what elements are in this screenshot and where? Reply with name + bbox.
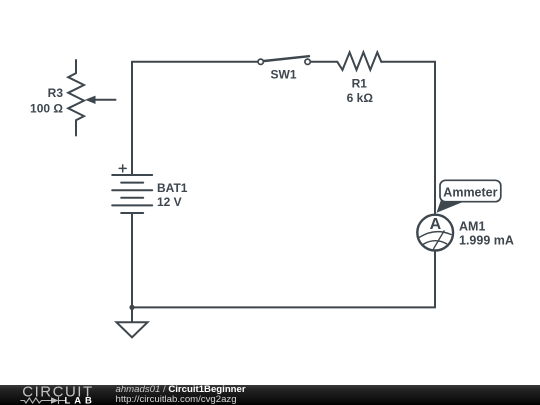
wire top rail left (corner to SW1 left terminal) xyxy=(132,61,257,63)
svg-text:100 Ω: 100 Ω xyxy=(30,101,63,115)
svg-text:BAT1: BAT1 xyxy=(157,181,188,195)
svg-text:R3: R3 xyxy=(48,86,64,100)
svg-text:AM1: AM1 xyxy=(459,220,485,234)
wire SW1 to R1 xyxy=(311,61,337,63)
potentiometer R3 wiper arrow xyxy=(85,96,116,104)
svg-text:SW1: SW1 xyxy=(270,68,296,82)
resistor R1 xyxy=(337,52,381,70)
svg-text:1.999 mA: 1.999 mA xyxy=(459,234,514,248)
svg-text:http://circuitlab.com/cvg2azg: http://circuitlab.com/cvg2azg xyxy=(116,394,237,405)
wire R1 to top-right corner xyxy=(381,61,435,63)
ground xyxy=(117,322,148,337)
wire battery- to junction xyxy=(131,213,133,307)
ammeter AM1 xyxy=(417,215,453,251)
callout Ammeter xyxy=(437,180,501,213)
wire right vertical upper (corner to ammeter) xyxy=(434,62,436,214)
wire ammeter to bottom-right corner xyxy=(434,251,436,307)
svg-text:12 V: 12 V xyxy=(157,195,182,209)
battery plus sign xyxy=(119,165,126,172)
footer bar xyxy=(0,385,540,405)
logo diode triangle xyxy=(51,397,59,403)
svg-text:R1: R1 xyxy=(352,77,368,91)
wire bottom rail xyxy=(132,306,435,308)
battery BAT1 xyxy=(112,175,152,213)
wire junction to ground xyxy=(131,307,133,322)
logo schematic line xyxy=(21,397,65,403)
potentiometer R3 xyxy=(68,60,84,136)
svg-text:6 kΩ: 6 kΩ xyxy=(347,91,374,105)
svg-text:Ammeter: Ammeter xyxy=(443,186,497,200)
junction node xyxy=(129,305,134,310)
wire battery+ to top-left corner (left vertical) xyxy=(131,62,133,175)
switch SW1 xyxy=(258,56,310,64)
svg-text:LAB: LAB xyxy=(65,396,96,405)
svg-text:A: A xyxy=(430,216,442,233)
